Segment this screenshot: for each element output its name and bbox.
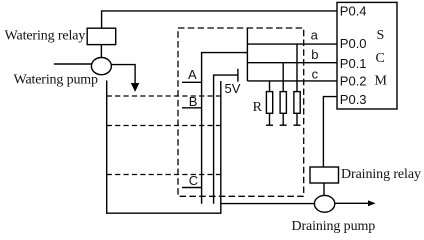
wire pump outlet to tank <box>111 65 135 84</box>
draining relay K2 <box>310 167 339 183</box>
ground bar R1 <box>266 124 273 126</box>
ground bar R3 <box>294 124 301 126</box>
electrode rod A <box>202 53 248 204</box>
water level line 1 (A) <box>107 95 221 97</box>
SCM box U1 <box>337 2 397 109</box>
electrode B contact bar <box>182 107 202 109</box>
resistor R3 lead <box>296 44 298 92</box>
drain pipe from tank <box>221 203 315 205</box>
resistor R2 lead <box>282 63 284 92</box>
watering relay K1 <box>87 28 116 44</box>
svg-text:A: A <box>188 67 197 82</box>
resistor R2 ground lead <box>282 113 284 125</box>
wire relay to draining pump <box>323 183 325 196</box>
svg-text:Watering relay: Watering relay <box>5 28 86 43</box>
draining pump M2 <box>314 195 334 212</box>
watering pump M1 <box>91 58 111 75</box>
svg-text:P0.4: P0.4 <box>340 4 367 19</box>
svg-text:P0.3: P0.3 <box>340 92 367 107</box>
svg-text:5V: 5V <box>225 81 241 96</box>
svg-text:M: M <box>375 73 388 88</box>
electrode rod 5V supply <box>214 75 238 204</box>
resistor R1 <box>266 92 272 114</box>
water level line 2 (B) <box>107 125 221 127</box>
wire P0.3 net <box>323 97 337 167</box>
arrowhead into tank <box>131 83 139 92</box>
svg-text:Watering pump: Watering pump <box>14 73 99 88</box>
resistor R3 <box>294 92 300 114</box>
svg-text:Draining relay: Draining relay <box>341 167 421 182</box>
svg-text:a: a <box>311 27 319 42</box>
wire relay to pump <box>100 45 102 58</box>
svg-text:P0.0: P0.0 <box>340 36 367 51</box>
electrode C contact bar <box>182 187 202 189</box>
electrode A contact bar <box>182 81 202 83</box>
resistor R2 <box>280 92 286 114</box>
drain outlet wire <box>335 202 369 204</box>
svg-text:C: C <box>376 51 385 66</box>
wire P0.4 net (watering relay to P0.4) <box>102 11 337 28</box>
svg-text:P0.1: P0.1 <box>340 56 367 71</box>
water tank walls <box>107 81 221 214</box>
svg-text:R: R <box>253 100 263 115</box>
svg-text:C: C <box>189 173 198 188</box>
svg-text:P0.2: P0.2 <box>340 74 367 89</box>
water level line 3 (C) <box>107 174 221 176</box>
svg-text:S: S <box>377 28 385 43</box>
bus junction vertical <box>246 28 248 81</box>
drain outlet arrowhead <box>368 200 376 206</box>
wire a <box>247 43 337 45</box>
sensor circuit dashed boundary <box>178 28 304 196</box>
wire c <box>247 80 337 82</box>
svg-text:B: B <box>189 94 198 109</box>
resistor R3 ground lead <box>296 113 298 125</box>
svg-text:b: b <box>311 47 318 62</box>
svg-text:Draining pump: Draining pump <box>292 219 376 234</box>
resistor R1 lead <box>269 81 271 92</box>
resistor R1 ground lead <box>269 113 271 125</box>
5V terminal tick <box>237 69 239 82</box>
ground bar R2 <box>280 124 287 126</box>
wire b <box>247 62 337 64</box>
svg-text:c: c <box>312 66 319 81</box>
wire pump left stub <box>54 63 92 65</box>
